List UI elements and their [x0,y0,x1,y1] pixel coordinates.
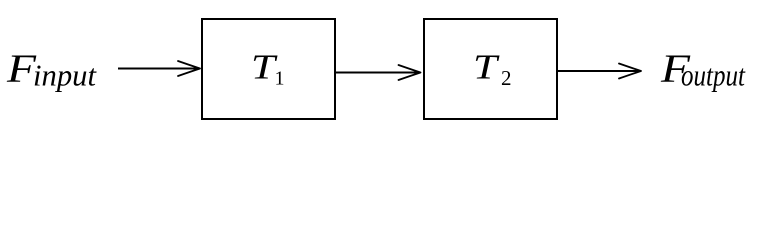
svg-text:2: 2 [501,66,512,90]
wire arrow from block T2 to F_output [558,64,641,79]
block T1 box [202,19,335,119]
svg-text:output: output [681,58,746,93]
block T1 label [251,48,285,90]
block T2 box [424,19,557,119]
wire arrow from block T1 to block T2 [335,65,421,80]
svg-text:T: T [473,48,500,87]
block T2 label [473,48,512,91]
node F_output label [660,46,746,93]
wire arrow from F_input to block T1 [118,61,200,76]
svg-text:1: 1 [275,68,285,90]
svg-text:input: input [33,58,97,93]
node F_input label [6,46,98,93]
